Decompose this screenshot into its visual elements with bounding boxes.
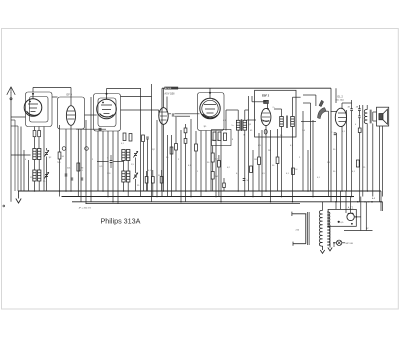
- trimmer C6: [134, 153, 137, 155]
- label ECH3: [165, 87, 179, 89]
- wire V7 drops: [341, 126, 343, 191]
- wire tall v x248: [248, 96, 250, 191]
- tube V1: [24, 99, 42, 117]
- box filter: [328, 209, 356, 226]
- wire V4 top: [163, 88, 165, 108]
- resistor R9b: [184, 139, 187, 144]
- resistor R1: [58, 152, 61, 159]
- resistor R25: [151, 177, 154, 184]
- resistor R8: [175, 144, 178, 151]
- wire V1 drops: [34, 127, 36, 131]
- capacitor C8: [110, 160, 113, 162]
- wire lamp leads: [334, 242, 336, 244]
- coil L1 antenna primary: [33, 149, 36, 160]
- svg-text:AOV 3|58: AOV 3|58: [165, 93, 176, 96]
- wire bus 3: [72, 201, 383, 203]
- resistor R9: [184, 128, 187, 133]
- wire lamp drop: [333, 243, 335, 247]
- resistor R11: [213, 132, 216, 141]
- wire top feed: [342, 102, 352, 104]
- wire V3 topcap run: [106, 89, 108, 94]
- wire V5 topcap run: [209, 88, 211, 92]
- antenna: [10, 92, 12, 202]
- wire V3 loop outer: [94, 94, 121, 132]
- svg-text:2M: 2M: [268, 150, 271, 152]
- svg-text:JP = 452 mV: JP = 452 mV: [79, 207, 92, 209]
- capacitor C13: [358, 108, 361, 110]
- wire V2 drops: [65, 129, 67, 191]
- coil L2 primary: [33, 170, 36, 181]
- wire dashes: [364, 201, 366, 203]
- speaker LS magnet: [379, 114, 383, 120]
- wire pot-V7 link: [331, 111, 337, 113]
- resistor R22: [211, 172, 214, 180]
- wire L stage drops: [34, 160, 36, 171]
- ground power 2: [322, 246, 324, 250]
- wire T2 core: [286, 116, 288, 129]
- capacitor C10: [243, 178, 246, 180]
- coil L4 primary: [122, 171, 125, 182]
- svg-text:1M: 1M: [327, 162, 330, 164]
- svg-text:50k: 50k: [67, 168, 70, 170]
- coil L1 secondary: [38, 149, 41, 160]
- resistor R15: [258, 157, 261, 165]
- svg-text:B2L 2|5w: B2L 2|5w: [336, 100, 345, 102]
- wire V6 drops: [265, 126, 267, 191]
- ground power 1: [329, 244, 331, 248]
- capacitor C9: [172, 113, 174, 115]
- label left port: [3, 205, 5, 207]
- wire IF1 cluster box: [212, 130, 232, 146]
- capacitor C12 bank: [350, 108, 353, 110]
- wire power verticals: [360, 197, 362, 231]
- resistor R10: [195, 144, 198, 151]
- potentiometer P1 track: [318, 108, 327, 119]
- capacitor C13b: [358, 115, 360, 117]
- capacitor C4: [99, 127, 102, 129]
- wire speaker leads: [379, 126, 381, 202]
- wire T3 leads: [366, 105, 368, 110]
- resistor R24: [145, 177, 148, 184]
- svg-text:38,5+45: 38,5+45: [212, 140, 220, 142]
- wire antenna feed: [11, 154, 31, 156]
- tube V7: [335, 108, 346, 126]
- wire v x308: [307, 150, 309, 191]
- wire heater line: [344, 230, 373, 232]
- wire T1-boxB link: [247, 119, 256, 121]
- resistor R5: [129, 134, 132, 142]
- transformer T3 winding: [364, 110, 367, 124]
- resistor R1b: [38, 131, 41, 137]
- tube V3: [97, 99, 117, 119]
- tube V5: [200, 98, 220, 118]
- wire V3 drops: [97, 131, 99, 191]
- coil T1 secondary: [243, 120, 247, 130]
- wire T3-LS links: [373, 111, 377, 113]
- wire osc feed: [97, 161, 109, 163]
- svg-text:EL 2: EL 2: [338, 95, 344, 99]
- wire interstage: [76, 128, 106, 130]
- svg-text:EF 9: EF 9: [67, 93, 73, 97]
- wire V2-V3 link: [85, 114, 97, 116]
- wire V4 drops: [163, 124, 165, 191]
- component under V6: [264, 129, 267, 134]
- resistor R3: [77, 163, 80, 171]
- wire T1 core: [240, 119, 242, 131]
- trimmer C2: [45, 174, 48, 176]
- potentiometer P1 wiper: [319, 100, 324, 106]
- wire V1-V2 link: [52, 96, 58, 98]
- wire IF2-pot link: [301, 121, 316, 123]
- svg-text:ECH 3: ECH 3: [165, 88, 172, 90]
- resistor R19a: [358, 128, 361, 133]
- capacitor C3: [65, 173, 68, 175]
- resistor R26: [160, 177, 163, 184]
- tube V2: [66, 106, 75, 126]
- speaker LS frame: [377, 107, 389, 126]
- wire bus 2: [62, 196, 355, 198]
- transformer T3 core: [369, 110, 371, 124]
- transformer T4 secondary: [319, 210, 322, 246]
- label filter: [338, 221, 340, 223]
- resistor R13: [224, 133, 227, 141]
- coil T2 primary: [280, 117, 284, 127]
- coil T1 primary: [236, 120, 240, 130]
- pilot lamp: [336, 240, 341, 245]
- transformer T4 primary bracket: [292, 213, 306, 215]
- wire antenna mesh: [14, 120, 16, 191]
- resistor R14: [250, 166, 253, 173]
- capacitor C5: [146, 136, 149, 138]
- wire T1 leads: [237, 110, 239, 120]
- coil L2 secondary: [38, 170, 41, 181]
- wire R24-26 stubs: [146, 171, 148, 177]
- wire V5 drops: [200, 131, 202, 197]
- wire V1 loop inner: [30, 97, 49, 123]
- resistor R17: [292, 168, 295, 175]
- wire V1 to bus: [20, 127, 22, 192]
- svg-text:2M: 2M: [215, 176, 218, 178]
- ground chassis: [18, 191, 20, 199]
- wire right drops: [380, 191, 382, 211]
- junction dots: [34, 190, 36, 192]
- svg-text:MP 240: MP 240: [346, 243, 354, 245]
- svg-text:EBF 2: EBF 2: [262, 94, 270, 97]
- wire chassis bus 1: [18, 190, 381, 192]
- resistor R16: [276, 157, 279, 164]
- resistor R4: [123, 133, 126, 141]
- coil L3 secondary: [127, 150, 130, 161]
- tube V4: [159, 108, 168, 125]
- capacitor C11: [334, 132, 337, 134]
- wire V1 loop outer: [26, 92, 53, 127]
- coil L3 osc primary: [122, 150, 125, 161]
- wire mid verticals: [140, 88, 142, 197]
- grid cap V6: [264, 100, 269, 103]
- trimmer C1: [45, 152, 48, 154]
- resistor R7: [170, 147, 173, 154]
- wire v x362: [362, 105, 364, 197]
- box shield A: [162, 87, 331, 89]
- wire V3-boxA links: [121, 96, 152, 98]
- resistor R21: [218, 161, 221, 168]
- wire V2 loop: [58, 97, 85, 129]
- wire R cluster stubs: [212, 146, 214, 154]
- wire antenna link: [11, 116, 26, 118]
- component blobs under V2: [62, 147, 66, 151]
- wire V3 loop inner: [98, 98, 116, 127]
- tube V6: [261, 108, 271, 125]
- wire V1 topcap run: [32, 88, 34, 93]
- wire V4-V5 link: [175, 113, 200, 115]
- resistor R23: [223, 183, 226, 188]
- coil L4 secondary: [127, 171, 130, 182]
- coil T2 secondary: [291, 117, 295, 127]
- resistor R1a: [33, 131, 36, 137]
- resistor R19: [356, 160, 359, 167]
- transformer T4 core: [307, 212, 309, 245]
- wire pot leads: [310, 103, 312, 191]
- wire bus 4: [86, 203, 301, 205]
- speaker LS cone: [383, 109, 387, 124]
- wire T2 leads: [281, 109, 283, 117]
- wire AZ1 side: [354, 216, 361, 218]
- svg-text:1M: 1M: [254, 159, 257, 161]
- box shield B: [255, 90, 296, 137]
- transformer T4 secondary b: [327, 212, 330, 245]
- wire AZ1 top: [350, 197, 352, 214]
- wire T4 taps: [326, 211, 329, 213]
- svg-text:Philips 313A: Philips 313A: [101, 216, 141, 225]
- wire L3 L4 links: [123, 161, 125, 172]
- trimmer C7: [134, 174, 137, 176]
- wire T4 top: [322, 202, 324, 211]
- wire V5 loop: [198, 93, 225, 131]
- resistor R20: [211, 153, 214, 162]
- resistor R12: [218, 132, 221, 141]
- resistor R6: [142, 135, 145, 142]
